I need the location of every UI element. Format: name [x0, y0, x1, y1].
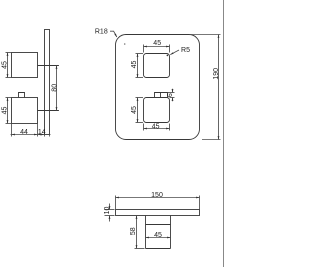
svg-text:14: 14 [38, 129, 46, 136]
svg-text:58: 58 [130, 227, 137, 235]
svg-text:190: 190 [213, 68, 220, 80]
svg-text:45: 45 [131, 61, 138, 69]
svg-text:80: 80 [52, 84, 59, 92]
svg-text:45: 45 [131, 106, 138, 114]
svg-text:45: 45 [2, 61, 9, 69]
svg-text:45: 45 [2, 107, 9, 115]
svg-text:45: 45 [153, 40, 161, 47]
svg-text:150: 150 [151, 192, 163, 199]
svg-text:44: 44 [20, 129, 28, 136]
svg-text:R18: R18 [95, 29, 108, 36]
svg-text:R5: R5 [181, 47, 190, 54]
svg-text:9: 9 [165, 93, 172, 97]
svg-text:10: 10 [104, 207, 111, 215]
svg-text:45: 45 [152, 123, 160, 130]
svg-text:45: 45 [154, 232, 162, 239]
